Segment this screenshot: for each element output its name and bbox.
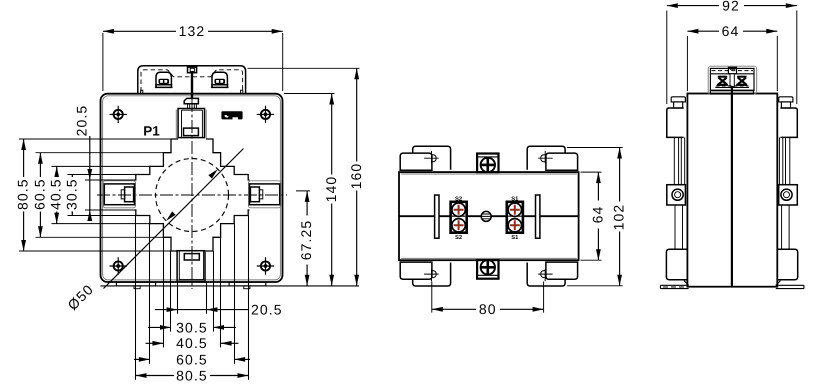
svg-text:30.5: 30.5	[63, 178, 79, 210]
right clip: rail	[779, 137, 797, 184]
svg-text:80.5: 80.5	[15, 178, 31, 210]
dim 160 right	[348, 68, 364, 285]
svg-text:20.5: 20.5	[251, 301, 283, 317]
mounting hole TR	[257, 106, 274, 123]
feet tab left	[134, 286, 140, 289]
bottom feet left	[116, 282, 155, 286]
top terminal hump	[138, 66, 246, 94]
left clip: neck	[674, 102, 683, 108]
svg-text:64: 64	[722, 23, 740, 39]
dim 30.5 left	[63, 175, 79, 216]
side terminal right	[250, 184, 280, 205]
left clip: top cap	[671, 97, 685, 102]
dim 64	[687, 23, 777, 91]
hump small bottom notch right	[241, 90, 243, 94]
foot bottom-left back	[413, 263, 451, 287]
bottom cover screw	[477, 260, 498, 279]
bottom feet right	[229, 282, 266, 286]
dim 80.5 bottom	[136, 367, 249, 383]
primary column gray sides	[176, 110, 206, 139]
window staircase bottom-right	[206, 210, 250, 251]
rib bar right	[536, 195, 540, 238]
right clip: upper block	[780, 108, 797, 137]
svg-text:S1: S1	[511, 234, 519, 241]
screw X right	[736, 76, 747, 86]
bottom secondary terminal outer	[177, 251, 205, 282]
window staircase top-right	[206, 139, 250, 180]
left extension lines	[19, 139, 171, 251]
dim 40.5 bottom	[146, 335, 239, 351]
terminal screw right	[211, 72, 229, 87]
secondary terminal right	[507, 196, 523, 241]
horizontal shelf	[710, 73, 754, 75]
foot bottom-left front	[400, 262, 432, 279]
terminal block outer gray	[708, 66, 757, 94]
svg-text:102: 102	[611, 204, 627, 231]
left flange	[661, 281, 689, 289]
dashed hidden line	[712, 70, 754, 72]
small center screw	[481, 211, 491, 221]
side terminal left	[104, 184, 134, 205]
brand logo blob	[221, 111, 242, 119]
foot top-left front	[400, 153, 432, 170]
svg-text:40.5: 40.5	[176, 335, 208, 351]
side terminal left gray outline	[103, 181, 135, 208]
svg-text:160: 160	[348, 163, 364, 190]
svg-text:S2: S2	[455, 196, 462, 203]
svg-text:S2: S2	[455, 234, 462, 241]
top center clamp box	[188, 67, 197, 73]
svg-text:30.5: 30.5	[176, 319, 208, 335]
secondary terminal left	[451, 196, 467, 241]
window staircase top-left	[135, 139, 179, 180]
bottom secondary small rect	[184, 254, 199, 260]
dim 80.5 left	[15, 139, 31, 251]
dim 30.5 bottom	[148, 319, 236, 335]
vertical centerline	[191, 99, 193, 289]
seam centerline	[399, 215, 579, 217]
column small inner rect	[184, 128, 199, 136]
dim 140 right	[323, 94, 339, 286]
center post	[730, 74, 734, 87]
right flange	[776, 281, 804, 289]
dim 40.5 left	[48, 166, 64, 223]
seam segments through terminal blocks	[452, 215, 522, 217]
dashed circle D50	[156, 159, 229, 232]
svg-text:40.5: 40.5	[48, 178, 64, 210]
svg-text:132: 132	[179, 23, 206, 39]
terminal screw left	[155, 72, 173, 87]
dim 64 middle	[581, 172, 606, 260]
primary cap below body edge	[184, 98, 198, 103]
leader arrow lower	[164, 211, 175, 222]
dim 60.5 left	[31, 153, 47, 238]
svg-text:140: 140	[323, 176, 339, 203]
svg-text:60.5: 60.5	[31, 178, 47, 210]
center seam	[731, 86, 733, 286]
center screw shaft thick line	[191, 73, 193, 99]
foot bottom-right front	[546, 262, 578, 279]
svg-text:P1: P1	[143, 123, 160, 138]
left clip: rail	[667, 137, 685, 184]
svg-text:67.25: 67.25	[298, 220, 314, 261]
bottom plate	[710, 90, 753, 94]
dim 102 middle	[567, 148, 627, 286]
foot bottom-right back	[527, 263, 565, 287]
top cover screw	[477, 154, 498, 173]
leader arrow upper	[208, 167, 219, 178]
dim 60.5 bottom	[134, 351, 250, 367]
bottom secondary inner lines	[179, 251, 203, 280]
left clip: screw block	[667, 185, 686, 205]
foot TL screw	[424, 151, 439, 163]
body outer rounded rect	[101, 94, 283, 282]
foot TR screw	[538, 151, 553, 163]
svg-text:80: 80	[479, 301, 497, 317]
foot top-right front	[546, 153, 578, 170]
foot BL screw	[424, 269, 439, 281]
terminal block inner	[710, 68, 754, 90]
dim 80 middle bottom	[432, 282, 544, 318]
horizontal centerline	[97, 194, 287, 196]
svg-text:80.5: 80.5	[176, 367, 208, 383]
right clip: top cap	[779, 97, 793, 102]
window staircase bottom-left	[135, 210, 179, 251]
foot top-right back	[527, 146, 565, 169]
primary column inner lines	[182, 110, 203, 137]
svg-text:64: 64	[590, 206, 606, 224]
clamp bar	[715, 86, 749, 88]
primary column outer box	[178, 109, 204, 138]
mounting hole BL	[110, 257, 127, 274]
right clip: screw block	[779, 185, 798, 205]
right clip: screw circle	[781, 189, 792, 200]
dim 20.5 bottom	[155, 301, 283, 317]
base line extended	[101, 285, 360, 287]
dim 92	[667, 0, 797, 104]
left clip: lower rail	[675, 205, 683, 249]
dim 132 top	[103, 23, 283, 91]
svg-text:92: 92	[722, 0, 740, 13]
hump hidden dashed outline with center notch	[141, 70, 243, 92]
side terminal right gray outline	[249, 181, 281, 208]
hump small bottom notch left	[141, 90, 143, 94]
svg-text:20.5: 20.5	[74, 105, 90, 137]
center tab	[728, 67, 736, 74]
body rect	[687, 94, 777, 287]
right clip: neck	[781, 102, 790, 108]
feet tab right	[244, 286, 250, 289]
rib bar left	[435, 195, 439, 238]
main body rect	[399, 172, 579, 260]
mounting hole BR	[257, 257, 274, 274]
svg-text:S1: S1	[511, 196, 519, 203]
left clip: upper block	[667, 108, 684, 137]
bottom extension lines	[136, 216, 249, 380]
neck lines	[188, 104, 197, 109]
right clip: lower rail	[782, 205, 790, 249]
left clip: bottom block	[666, 249, 687, 279]
dim 20.5 left (small, outside arrows, text above)	[74, 105, 93, 221]
right clip: bottom block	[777, 249, 797, 279]
foot BR screw	[538, 269, 553, 281]
svg-text:60.5: 60.5	[176, 351, 208, 367]
right extension ticks	[248, 68, 360, 191]
mounting hole TL	[110, 106, 127, 123]
diameter leader line	[104, 149, 244, 289]
body inner gray lines	[401, 174, 577, 258]
left clip: screw circle	[672, 189, 683, 200]
body inner outline	[103, 96, 281, 280]
foot top-left back	[413, 146, 451, 169]
dim 67.25 right	[298, 191, 314, 286]
screw X left	[717, 76, 728, 86]
